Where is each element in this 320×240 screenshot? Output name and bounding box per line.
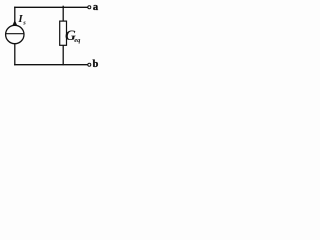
wire: bottom horizontal to terminal b (14, 64, 88, 66)
svg-text:eq: eq (74, 37, 81, 44)
svg-text:a: a (93, 2, 99, 13)
svg-text:s: s (22, 20, 26, 27)
wire: left vertical from top wire down to current source top (14, 7, 16, 26)
wire: resistor top stub from top wire (62, 6, 64, 22)
current source U1: circle (6, 25, 24, 43)
svg-text:b: b (93, 59, 99, 70)
resistor G_eq: box (60, 21, 67, 45)
background (0, 0, 115, 75)
terminal a: open circle (88, 6, 91, 9)
wire: resistor bottom stub to bottom wire (62, 45, 64, 65)
wire: left vertical from circle bottom to bottom wire (14, 44, 16, 66)
terminal b: open circle (88, 63, 91, 66)
wire: top horizontal from source corner to terminal a (14, 6, 88, 8)
current source arrow (points up, on wire above circle) (12, 20, 17, 26)
current source bar through circle (6, 33, 24, 35)
